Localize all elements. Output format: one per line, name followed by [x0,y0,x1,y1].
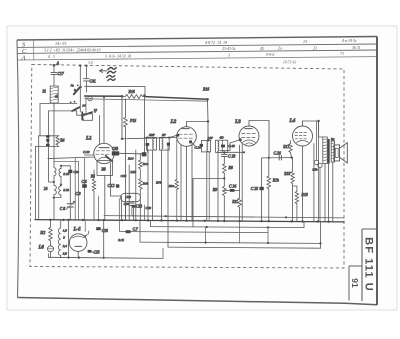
tube L3 grid blob [239,138,242,141]
svg-text:23-43-5c: 23-43-5c [222,47,236,51]
capacitor C20 blob on IF2 left [200,144,203,147]
wire AF coupling line [262,157,292,159]
wire x83 upper [98,196,100,220]
capacitor padder blob [68,170,72,173]
B plus line 2 [140,242,321,243]
svg-text:BF 111 U: BF 111 U [363,237,375,292]
node B1 dots [206,226,208,228]
svg-text:C10: C10 [73,170,79,174]
svg-text:L1: L1 [85,136,92,142]
svg-text:3·4: 3·4 [88,61,93,65]
tube L1 envelope [94,143,114,163]
tube L2 cathode lead [191,142,195,146]
wire S1 down to band coils [53,103,55,167]
wire L2 grid line from coil area [122,138,177,139]
wire C23 to R8 [223,156,225,164]
svg-text:R9: R9 [212,188,217,192]
svg-text:C 25: C 25 [251,187,258,191]
node IF2 top [207,139,209,141]
header table bottom line [17,57,377,60]
resistor R10 (vertical) [238,198,242,221]
capacitor C23 [221,154,227,156]
output transformer secondary [331,141,334,162]
wire L3 plate lead [249,121,269,158]
header row1 figures [55,38,357,46]
resistor chain upper (vertical) [139,153,142,178]
capacitor C13 blob [132,205,136,208]
node osc bus right end [206,98,209,101]
wire IF1 blob link [147,146,149,153]
svg-text:R18: R18 [301,193,308,197]
capacitor C26 [279,155,281,160]
svg-text:24: 24 [44,187,48,191]
node osc coil tap [60,184,62,186]
svg-text:12: 12 [94,108,98,112]
wire osc bus drop to L2 plate node [207,99,210,121]
svg-text:-C15: -C15 [92,250,99,254]
svg-text:C43: C43 [112,147,118,151]
svg-text:19-73-10: 19-73-10 [283,61,296,65]
resistor R8 (vertical) [223,164,227,173]
output transformer core [328,139,330,164]
heater tap winding [58,220,60,257]
oscillator padder box [97,161,113,176]
wire L4 cathode drop [302,146,304,221]
capacitor C43 (bold blob at L1 plate) [112,151,119,155]
capacitor C15 blob [88,250,92,253]
switch III contact [94,111,96,113]
node R16 right [143,94,145,96]
node B2 dots [205,242,322,245]
capacitor C42 blob [221,145,225,148]
coil box under switch [83,114,93,121]
squiggle mark lower [107,75,116,80]
svg-text:C.42: C.42 [228,144,235,148]
wire cluster link [125,197,133,220]
switch II arm (bold) [72,107,80,111]
capacitor C7 blob [126,230,131,233]
IF1 secondary box [160,137,170,150]
svg-text:4 3: 4 3 [48,55,55,59]
wire C19 drop [167,146,169,221]
wire C8 to bus [69,207,71,220]
resistor R6 (vertical) [92,170,95,220]
switch wafer I contact ring [88,96,93,101]
wire osc section drops [129,150,152,220]
svg-text:3 4·3+ 34 33 36: 3 4·3+ 34 33 36 [105,54,131,58]
wire cathode node to C23 [223,152,225,154]
bus junction dots [49,219,330,223]
capacitor C16 blob [96,227,101,230]
variable capacitor C8 [66,201,75,209]
switch wafer I pivot dot [89,98,91,100]
svg-text:7a: 7a [71,84,75,88]
svg-text:hp: hp [331,137,335,141]
svg-text:45: 45 [260,47,264,51]
drawing frame right border [376,37,378,306]
capacitor C24 [230,189,235,192]
resistor R18 (vertical) [267,158,271,221]
svg-text:C.7: C.7 [133,228,138,232]
wire L1 grid from band coils [48,156,94,158]
IF2 secondary box [216,140,228,152]
wire heater return left riser [48,254,50,257]
svg-text:L6: L6 [38,245,45,250]
drawing frame top border [17,37,377,41]
wire osc coil top stub [60,166,62,169]
tube L4 envelope [293,126,313,146]
wire L3 grid stub [220,140,239,151]
node rail dot [165,215,167,217]
wire R15 bottom drop [125,139,127,220]
wire L3 cathode drop 1 [239,145,241,198]
tube L5 filament bar [75,245,82,247]
capacitor C25 (blob) [259,187,263,190]
node R8/R9 junction [223,177,225,179]
svg-text:A: A [56,61,60,66]
node ant coil tap [53,181,55,183]
svg-text:36 31: 36 31 [352,46,361,50]
tube L1 triode slash (bold) [106,156,113,162]
svg-text:C.12: C.12 [108,184,115,188]
svg-text:C39: C39 [125,195,131,199]
node heater return dots [68,256,105,259]
oscillator coil winding 2 [59,186,61,195]
switch I contact b [80,86,82,88]
tube L1 cathode arc [99,157,110,159]
resistor R4 (vertical) [56,136,59,147]
header row2 figures [44,46,361,53]
svg-text:C45: C45 [121,174,127,178]
svg-text:4·8·72 14 19: 4·8·72 14 19 [205,40,227,45]
wire grid line drop a [74,158,76,220]
wire AVC feed left [193,178,224,226]
svg-text:R16: R16 [202,88,209,92]
wire left column 2 [35,146,37,219]
svg-text:2RF: 2RF [149,133,156,137]
header table row line 2 [17,50,377,53]
tube L2 grid dashes [179,134,193,138]
capacitor C18 (blob on box edge) [146,143,150,146]
heater return line [49,257,164,258]
tube L1 grid dashes [96,151,110,154]
header table row line 1 [17,44,377,47]
resistor R16 (series, horizontal) [122,94,146,98]
wire L1 screen top lead [103,96,105,143]
svg-text:31: 31 [43,90,47,94]
wire OT primary drop [319,121,323,137]
capacitor C17 [51,72,57,74]
tube L1 plate bar [99,147,109,149]
node osc coil top [60,165,62,167]
svg-text:R16: R16 [128,90,135,94]
svg-text:4D: 4D [220,136,225,140]
speaker magnet inner rect [335,148,338,157]
svg-text:C41: C41 [90,79,96,83]
filter loop C39 [121,193,141,201]
wire x68.6 bus to return [68,220,70,258]
wire aux line left riser [119,220,121,231]
node osc bus junction [121,95,124,98]
tube L3 grid dashes [242,134,256,138]
B output rail [104,216,344,218]
svg-text:C.19: C.19 [195,146,202,150]
svg-text:5.1b: 5.1b [63,188,69,192]
svg-text:R14: R14 [127,156,134,160]
svg-text:14: 14 [82,104,86,108]
svg-text:R6: R6 [101,168,106,172]
svg-text:L2: L2 [170,119,177,125]
wire C2 leads [47,138,49,144]
wire IF1 secondary to L2 grid [169,135,177,137]
wire x103.7 bus to return [103,220,105,258]
svg-text:A: A [21,54,26,61]
svg-text:R19: R19 [283,172,290,176]
node ant coil bottom [53,197,55,199]
node IF1 top [146,137,148,139]
capacitor C12 [116,184,119,187]
wire osc coil middle [60,176,62,186]
node A (aerial entry on chassis line) [53,64,56,67]
electrolytic C29 [318,163,322,167]
wire osc bus right section (bold) [146,97,208,100]
B plus line 1 [151,227,305,228]
svg-text:C.9: C.9 [76,192,81,196]
svg-text:R1b: R1b [272,178,279,182]
wire C6 drop [84,158,86,220]
wire riser B2/B3 right [320,222,322,248]
wire R15 node down to grid line [121,96,123,139]
pilot lamp L6 [48,246,54,252]
wire L4 plate pair drop [316,121,318,222]
wire R8 to junction [223,173,225,178]
resistor R15 (vertical) [124,99,128,139]
chassis dashed boundary [30,65,344,269]
wire riser B2 left [140,220,168,247]
node top bus tap 1 [79,65,81,67]
interference arrow symbol [100,69,108,72]
wire L3 cathode drop 2 [241,145,243,221]
wire switch feed to tap [49,167,54,182]
node L4 plate to OT [317,120,319,122]
wire L1 injection stub [85,154,95,156]
node screen tap [103,96,105,98]
svg-text:C.10: C.10 [83,150,90,154]
tube L5 envelope [69,234,87,252]
svg-text:23: 23 [313,46,317,50]
IF1 primary box [147,137,157,150]
svg-text:2c-: 2c- [278,47,284,51]
svg-text:32b: 32b [313,168,318,172]
node cathode [243,151,245,153]
svg-text:L-5: L-5 [73,227,82,232]
wire osc coil bottom link [54,195,61,198]
svg-text:C16: C16 [102,229,108,233]
svg-text:C40: C40 [124,202,130,206]
wire C29 drop [319,168,321,222]
wire OT secondary drops [325,162,333,222]
wire L2 plate lead [187,122,209,141]
node IF1b top [168,137,170,139]
wire grid line drop b [77,161,79,220]
resistor R17 (vertical) [289,144,292,153]
svg-text:C17: C17 [58,72,65,76]
svg-text:C.26: C.26 [274,151,281,155]
svg-text:s2: s2 [55,95,58,99]
coil S1 (antenna input coil) [50,86,58,103]
speaker driver rect [334,145,340,161]
node top bus tap 2 [85,65,87,67]
wire switch area to left column upper [40,103,77,135]
wire switch III bold elbow [81,112,84,120]
wire tap2 down [85,66,87,79]
node L5 anode [84,235,86,237]
resistor R2 (vertical) [49,220,53,246]
node rail dot 2 [285,216,287,218]
wire x163 return end riser [162,248,164,258]
wire L4 plate lead [303,121,319,126]
speaker cone [340,143,348,163]
wire L2 grid return drop [176,138,178,221]
main chassis bus (bold) [35,220,344,222]
capacitor C6 blob [82,184,87,188]
node C23 top [223,151,225,153]
wire heater winding bottom [60,257,62,258]
antenna coil winding 2 [54,185,56,194]
tube L3 envelope [239,126,259,146]
wire L1 control grid top lead [99,116,101,145]
wire padder box drop [104,175,106,220]
oscillator coil winding 1 [59,168,61,176]
svg-text:R7b: R7b [155,181,162,185]
wire lower stub [54,160,78,162]
node AF line right [291,157,293,159]
svg-text:C 8: C 8 [60,207,65,211]
wire aerial lead [53,65,55,72]
wire loop bottom to plates [131,202,133,216]
wire IF2 right drop [208,140,210,221]
svg-text:91: 91 [350,278,360,288]
wire lamp to return [50,252,52,258]
wire L3 cathode line [220,151,245,153]
svg-text:R4a: R4a [142,162,149,166]
wire C24 leads [224,189,239,191]
svg-text:14+33-: 14+33- [55,41,68,46]
svg-text:R11: R11 [231,200,238,204]
output transformer primary [323,137,328,164]
wire L1 plate to IF1 [119,152,142,155]
switch I arm (bold) [74,87,80,94]
wire cluster risers [119,199,144,221]
svg-text:R4: R4 [59,139,64,143]
svg-text:R9a: R9a [168,184,175,188]
wire drops bus to B2 [206,221,268,243]
svg-text:C43: C43 [145,206,151,210]
wire osc top elbow to padder column [61,166,70,170]
capacitor C41 [84,79,90,81]
resistor R20 (vertical) [295,186,298,221]
wire L5 anode lead [85,231,89,236]
resistor chain lower (vertical) [139,179,142,221]
auxiliary line with C7 [120,232,268,233]
tube L2 plate bar [182,128,189,130]
node B1 dot2 [267,226,269,228]
header table label column divider [33,40,35,60]
wire L1 cathode drop [111,163,122,220]
switch III arm (bold) [82,112,92,116]
wire switch II to band coil II [85,96,87,115]
wire IF2 primary bottom drop [206,152,208,221]
drawing frame left border [17,40,19,298]
svg-text:C.6: C.6 [82,180,87,184]
wire AVC vertical [38,136,40,220]
wire riser to B1 [151,220,305,227]
antenna coil winding 1 [54,168,56,176]
wire ant coil middle [53,176,55,186]
node L2 plate junction [207,120,209,122]
wire L2 cathode drops [181,145,192,221]
svg-text:9-9-0: 9-9-0 [266,53,274,57]
resistor R19 (vertical) [291,158,294,222]
svg-text:R4b: R4b [142,181,149,185]
svg-text:R.11: R.11 [117,238,124,242]
svg-text:R17: R17 [282,145,290,149]
svg-text:73: 73 [340,52,344,56]
IF2 primary box [201,140,210,152]
switch II contact a [70,101,72,103]
svg-text:P15: P15 [129,119,136,123]
switch II contact b [74,101,76,103]
header row3 figures [48,52,344,59]
resistor R7b on drop [175,179,178,189]
svg-text:R2: R2 [39,230,46,235]
wire screen drop x313.9 [313,144,315,222]
wire L5 top [84,220,86,232]
wire R20 top tap [293,185,297,187]
svg-text:R8: R8 [228,166,233,170]
tube L2 envelope [177,127,197,147]
wire C17 to coil S1 [53,75,55,86]
tube L4 cathode arc [297,141,309,143]
tube L4 grid dashes [295,132,306,138]
squiggle mark upper [107,68,116,74]
wire R17 bottom to AF node [290,152,291,157]
IF2b centre tap wire [221,140,223,152]
capacitor C2 (blob pair) [46,135,50,146]
svg-text:R13: R13 [130,170,137,174]
drawing frame bottom border [18,298,378,305]
resistor R9 (vertical) [223,178,227,220]
tube L2 cathode blob [189,140,192,143]
svg-text:C13: C13 [136,205,142,209]
wire IF1 secondary bottom drop [161,151,163,221]
wire screen feed (thin, parallel under osc bus) [85,99,208,101]
svg-text:3·1·2 +83 31·634+ 23404·69·: 3·1·2 +83 31·634+ 23404·69·40·19 [44,49,100,53]
wire R17 top [289,141,291,144]
switch I contact a [77,85,79,87]
svg-text:C 23: C 23 [228,154,235,158]
wire IF2 secondary bottom drop [217,151,219,221]
wire C41 to switch [85,81,87,92]
capacitor C19 blob on IF1 secondary [167,143,170,146]
wire L5 bottom [77,251,79,257]
wire upper link switch to grid line [85,86,145,96]
wire tap1 down to switch [79,66,81,112]
tube L2 grid blob [176,134,179,137]
node grid line left [121,138,123,140]
svg-text:13·: 13· [303,39,308,44]
tube L3 plate bar [245,128,252,130]
